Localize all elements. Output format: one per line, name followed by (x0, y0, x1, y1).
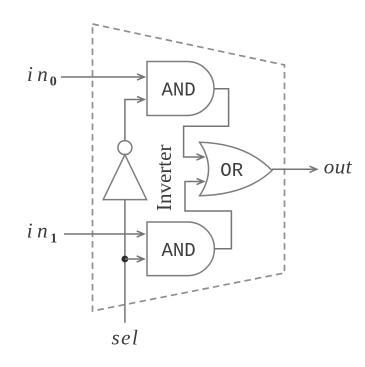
wire: AND U2 output to OR U3 pin 2 (with arrowhead) (185, 178, 231, 248)
svg-text:out: out (324, 155, 353, 179)
svg-text:sel: sel (112, 326, 140, 350)
svg-text:n: n (37, 219, 48, 243)
inverter U4 triangle (103, 155, 146, 200)
svg-text:AND: AND (162, 240, 196, 262)
AND gate U2 (bottom) body (147, 222, 214, 276)
junction dot on sel line (122, 256, 129, 263)
inverter U4 bubble (118, 141, 132, 155)
wire: AND U1 output to OR U3 pin 1 (with arrowhead) (184, 89, 229, 160)
svg-text:OR: OR (220, 160, 243, 182)
AND gate U1 (top) body (147, 62, 214, 116)
svg-text:AND: AND (162, 80, 196, 102)
svg-text:Inverter: Inverter (152, 145, 176, 211)
wire: in1 input to AND U2 pin 1 (with arrowhead) (64, 231, 144, 237)
svg-text:0: 0 (50, 75, 57, 90)
svg-text:n: n (37, 62, 48, 86)
mux body (dashed trapezoid outline) (93, 24, 285, 311)
wire: OR U3 output to out (with arrowhead) (272, 166, 317, 172)
svg-text:1: 1 (50, 232, 57, 247)
wire: sel branch from junction to AND U2 pin 2 (with arrowhead) (125, 256, 144, 262)
svg-text:i: i (27, 219, 33, 243)
wire: in0 input to AND U1 pin 1 (with arrowhead) (61, 74, 144, 80)
wire: sel vertical line from bottom up to inverter input (124, 200, 126, 323)
wire: inverter output up to AND U1 pin 2 (with arrowhead) (125, 96, 144, 140)
OR gate U3 body (200, 142, 272, 195)
svg-text:i: i (27, 62, 33, 86)
